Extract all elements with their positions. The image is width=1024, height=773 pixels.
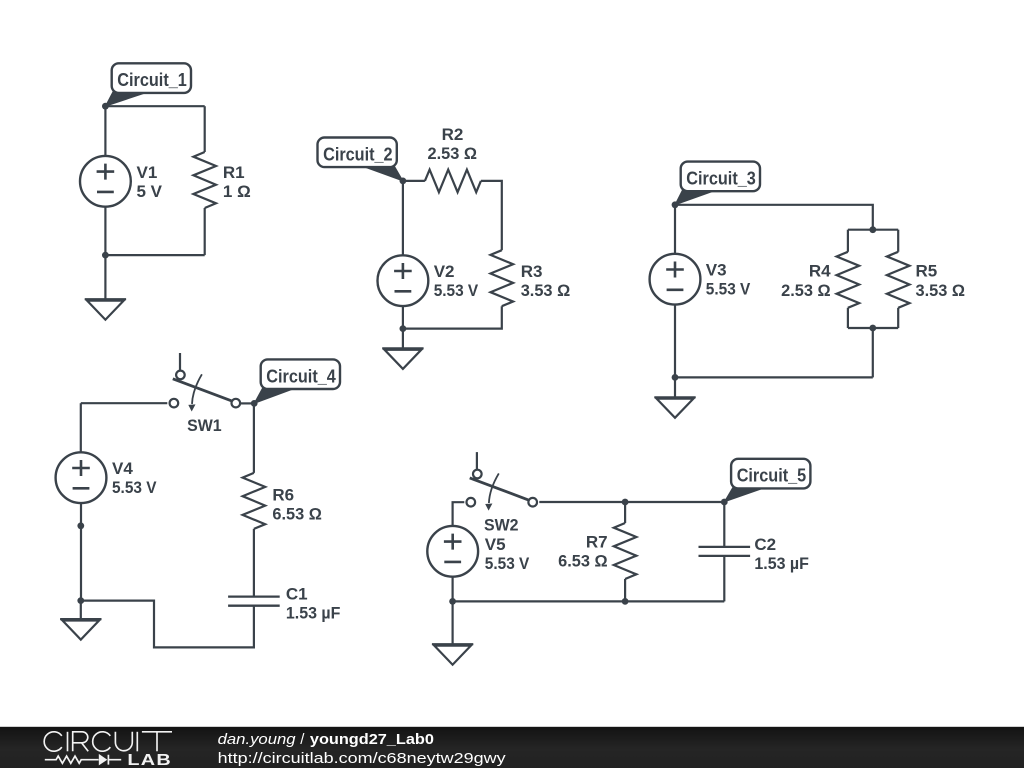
svg-text:R6: R6 — [272, 485, 294, 504]
svg-text:6.53 Ω: 6.53 Ω — [558, 552, 608, 571]
wire V4 top to switch left throw — [81, 402, 168, 404]
svg-text:Circuit_1: Circuit_1 — [117, 70, 187, 90]
ground symbol circuit 5 — [432, 643, 473, 645]
svg-text:R5: R5 — [916, 262, 938, 281]
wire top — [675, 205, 873, 230]
capacitor C1 — [228, 597, 280, 606]
svg-text:youngd27_Lab0: youngd27_Lab0 — [310, 731, 434, 748]
svg-text:5.53 V: 5.53 V — [706, 280, 751, 299]
callout Circuit_2 — [362, 166, 403, 181]
SW2 lever — [470, 478, 529, 500]
SW2 terminal common — [528, 498, 537, 507]
svg-text:C1: C1 — [286, 584, 308, 603]
resistor R7 — [614, 523, 637, 579]
wire C1 bottom loop — [81, 601, 254, 648]
wire left rail upper — [80, 403, 82, 452]
resistor R4 — [837, 252, 860, 308]
logo diode — [99, 754, 108, 766]
svg-text:LAB: LAB — [127, 752, 172, 768]
resistor R2 — [425, 170, 481, 193]
SW2 actuation arrow — [489, 473, 499, 503]
callout Circuit_3 — [675, 190, 715, 205]
node R7 bottom junction — [622, 598, 629, 605]
ground symbol circuit 4 — [60, 618, 101, 620]
SW1 actuation arrow — [192, 374, 202, 404]
wire left rail upper — [674, 205, 676, 254]
wire C2 top lead — [723, 502, 725, 547]
svg-text:5.53 V: 5.53 V — [112, 478, 157, 497]
callout Circuit_4 — [254, 388, 294, 403]
wire R4 bottom lead — [847, 308, 849, 328]
wire ground stem — [452, 601, 454, 644]
wire bottom — [105, 254, 204, 256]
wire node down to R6 — [253, 403, 255, 473]
wire ground stem — [80, 601, 82, 620]
wire parallel top bar — [848, 229, 898, 231]
svg-text:6.53 Ω: 6.53 Ω — [272, 505, 322, 524]
svg-text:V4: V4 — [112, 459, 133, 478]
wire ground stem — [402, 329, 404, 349]
callout Circuit_5 — [724, 487, 764, 501]
node switch output — [251, 400, 258, 407]
wire V2 bottom to node — [402, 306, 404, 329]
svg-text:R4: R4 — [809, 262, 831, 281]
wire node to R2 — [403, 180, 425, 182]
capacitor C2 — [699, 547, 751, 556]
SW1 top stub wire — [179, 353, 181, 370]
callout Circuit_1 — [105, 91, 146, 106]
wire ground stem — [104, 255, 106, 299]
wire bottom — [453, 600, 725, 602]
voltage source V4 — [56, 452, 107, 503]
svg-text:R1: R1 — [223, 163, 245, 182]
svg-text:V1: V1 — [137, 163, 158, 182]
svg-text:5 V: 5 V — [137, 182, 163, 201]
ground symbol circuit 3 — [654, 396, 695, 398]
node bottom-left circuit 1 — [102, 252, 109, 259]
wire left rail upper — [104, 106, 106, 156]
SW1 terminal top — [176, 371, 185, 380]
svg-text:SW2: SW2 — [484, 515, 519, 534]
svg-text:dan.young: dan.young — [218, 731, 297, 748]
svg-text:1.53 µF: 1.53 µF — [754, 554, 809, 573]
wire R2 to right rail — [481, 181, 502, 250]
svg-text:R2: R2 — [442, 125, 464, 144]
SW1 terminal left throw — [170, 399, 179, 408]
svg-text:Circuit_4: Circuit_4 — [266, 366, 336, 386]
svg-text:3.53 Ω: 3.53 Ω — [521, 281, 571, 300]
circuit 3 group — [650, 162, 965, 418]
wire left rail lower — [674, 305, 676, 378]
voltage source V3 — [650, 254, 701, 305]
wire R7 top lead — [624, 502, 626, 523]
svg-text:R3: R3 — [521, 262, 543, 281]
svg-text:Circuit_3: Circuit_3 — [686, 169, 756, 189]
wire top — [105, 105, 204, 107]
SW2 terminal top — [473, 470, 482, 479]
svg-text:Circuit_5: Circuit_5 — [737, 466, 807, 486]
wire R6 to C1 — [253, 529, 255, 597]
wire C2 bottom lead — [723, 556, 725, 602]
wire right rail lower — [204, 208, 206, 255]
wire R7 bottom lead — [624, 579, 626, 601]
node bottom-left circuit 2 — [400, 325, 407, 332]
svg-text:R7: R7 — [586, 533, 608, 552]
wire junction down — [872, 328, 874, 377]
svg-text:2.53 Ω: 2.53 Ω — [781, 281, 831, 300]
SW2 top stub wire — [476, 452, 478, 469]
SW2 terminal left throw — [467, 498, 476, 507]
svg-text:V2: V2 — [434, 262, 455, 281]
wire right rail lower — [403, 306, 502, 328]
wire parallel bottom bar — [848, 327, 898, 329]
circuit 1 group — [80, 63, 251, 319]
wire left rail lower — [104, 207, 106, 256]
circuit 4 group — [56, 353, 341, 647]
node V5 bottom — [449, 598, 456, 605]
ground symbol circuit 2 — [382, 347, 423, 349]
svg-text:3.53 Ω: 3.53 Ω — [916, 281, 966, 300]
logo CIRCUIT letters — [44, 732, 172, 752]
node below V4 — [77, 522, 84, 529]
wire common to C2 top — [539, 501, 724, 503]
node top-left circuit 1 — [102, 103, 109, 110]
wire V5 bottom — [452, 577, 454, 602]
voltage source V5 — [427, 526, 478, 577]
voltage source V2 — [378, 255, 429, 306]
node R7 top junction — [622, 499, 629, 506]
svg-text:SW1: SW1 — [187, 416, 222, 435]
node bottom-left circuit 4 — [77, 597, 84, 604]
logo resistor zigzag — [45, 756, 99, 763]
svg-text:1 Ω: 1 Ω — [223, 182, 251, 201]
svg-text:V3: V3 — [706, 260, 727, 279]
svg-text:Circuit_2: Circuit_2 — [323, 144, 393, 164]
resistor R5 — [887, 252, 910, 308]
svg-text:5.53 V: 5.53 V — [434, 281, 479, 300]
svg-text:1.53 µF: 1.53 µF — [286, 604, 341, 623]
wire R5 bottom lead — [897, 308, 899, 328]
node C2 top junction — [721, 499, 728, 506]
SW1 lever — [173, 379, 232, 401]
node parallel top junction — [869, 226, 876, 233]
wire right rail upper — [204, 106, 206, 152]
node top-left circuit 2 — [400, 178, 407, 185]
ground symbol circuit 1 — [85, 298, 126, 300]
svg-text:V5: V5 — [485, 535, 506, 554]
wire ground stem — [674, 377, 676, 397]
wire switch common to node — [240, 402, 254, 404]
resistor R1 — [193, 152, 216, 208]
wire left rail — [402, 181, 404, 255]
node top-left circuit 3 — [672, 201, 679, 208]
node parallel bottom junction — [869, 325, 876, 332]
circuit 2 group — [318, 125, 571, 369]
wire left rail lower — [80, 503, 82, 600]
voltage source V1 — [80, 156, 131, 207]
svg-text:C2: C2 — [754, 535, 776, 554]
svg-text:http://circuitlab.com/c68neytw: http://circuitlab.com/c68neytw29gwy — [218, 750, 507, 767]
wire left throw to V5 top — [453, 502, 465, 526]
wire bottom — [675, 376, 873, 378]
wire R4 top lead — [847, 230, 849, 252]
svg-text:5.53 V: 5.53 V — [485, 554, 530, 573]
resistor R3 — [491, 250, 514, 306]
switch SW1 — [170, 353, 241, 435]
resistor R6 — [243, 473, 266, 529]
SW1 terminal common — [232, 399, 241, 408]
switch SW2 — [467, 452, 538, 534]
node bottom-left circuit 3 — [672, 374, 679, 381]
circuit 5 group — [427, 452, 810, 665]
svg-text:2.53 Ω: 2.53 Ω — [428, 144, 478, 163]
wire R5 top lead — [897, 230, 899, 252]
